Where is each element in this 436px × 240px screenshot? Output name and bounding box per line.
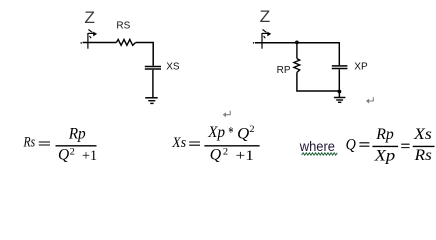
- resistor RS: [116, 40, 135, 46]
- svg-text:Q: Q: [58, 147, 69, 164]
- svg-text:Q: Q: [210, 147, 221, 164]
- svg-text:Xp: Xp: [373, 147, 395, 164]
- svg-text:RP: RP: [277, 65, 291, 76]
- ground (left circuit): [145, 98, 158, 104]
- formula 3: where Q = Rp/Xp = Xs/Rs: [299, 126, 435, 165]
- node A junction dot (top of RP): [295, 41, 299, 45]
- formula 2: Xs = Xp*Q^2/(Q^2+1): [171, 124, 259, 164]
- wire: node B to ground: [338, 92, 340, 98]
- svg-text:XS: XS: [166, 62, 180, 73]
- svg-text:Z: Z: [84, 8, 95, 27]
- svg-text:Z: Z: [260, 7, 271, 26]
- svg-text:*: *: [228, 125, 233, 142]
- svg-text:Rs: Rs: [23, 135, 36, 151]
- node B junction dot (bottom of XP): [338, 90, 342, 94]
- svg-text:XP: XP: [354, 62, 368, 73]
- svg-text:+1: +1: [236, 148, 254, 164]
- wire: RS to top-right corner, down to capacitor XS: [136, 43, 154, 66]
- ground (right circuit): [334, 98, 346, 103]
- svg-text:Rp: Rp: [68, 125, 86, 142]
- left impedance arrow: [88, 30, 97, 39]
- svg-text:2: 2: [249, 125, 254, 135]
- left port terminal dot: [80, 42, 82, 44]
- svg-text:2: 2: [223, 147, 228, 157]
- wire: capacitor XP to node B: [338, 69, 340, 91]
- wire: capacitor XS to ground: [152, 70, 154, 97]
- svg-text:+1: +1: [82, 148, 97, 164]
- resistor RP: [294, 59, 300, 73]
- right impedance arrow: [262, 30, 271, 39]
- svg-text:Xs: Xs: [171, 135, 186, 151]
- capacitor XP: [332, 66, 348, 69]
- wire: node A down to resistor RP: [296, 42, 298, 58]
- wire: left port to resistor RS: [83, 42, 117, 44]
- wire: RP bottom to bottom wire to node B: [297, 72, 340, 91]
- wire: right port to node A (top wire): [255, 42, 340, 44]
- capacitor XS: [145, 67, 161, 70]
- svg-text:Xp: Xp: [207, 124, 225, 141]
- paragraph mark 1 (gray return symbol): [223, 111, 231, 118]
- paragraph mark 2 (gray return symbol): [366, 97, 373, 103]
- right port terminal dot: [253, 42, 255, 44]
- svg-text:Xs: Xs: [413, 126, 432, 143]
- svg-text:2: 2: [70, 147, 75, 157]
- svg-text:Rp: Rp: [375, 126, 394, 143]
- svg-text:RS: RS: [116, 21, 130, 32]
- svg-text:where: where: [299, 139, 335, 155]
- right port stub: [261, 33, 263, 49]
- formula 1: Rs = Rp/(Q^2+1): [23, 125, 97, 164]
- wire: top wire corner down to capacitor XP: [338, 43, 340, 66]
- svg-text:Rs: Rs: [414, 147, 432, 164]
- svg-text:Q: Q: [346, 135, 356, 154]
- left port stub: [87, 33, 89, 49]
- svg-text:Q: Q: [237, 125, 249, 142]
